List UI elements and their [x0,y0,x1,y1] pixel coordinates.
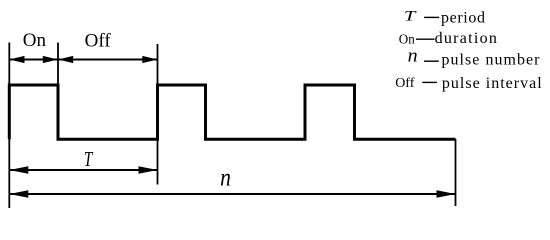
extension line right x=455.5 [455,139,457,206]
extension line x=157.5 [157,44,159,185]
legend line 2 dash [416,38,435,40]
svg-text:n: n [220,165,231,192]
dimension Off: right arrowhead [142,56,157,63]
svg-text:pulse interval: pulse interval [442,75,542,92]
extension line x=58 top [57,43,59,86]
dimension On: line [9,59,58,61]
dimension On: right arrowhead [43,56,58,63]
dimension n: right arrowhead [437,190,456,197]
legend line 4 dash [422,81,437,83]
svg-text:duration: duration [435,30,497,47]
dimension On: left arrowhead [9,56,24,63]
dimension n: line [9,193,455,195]
extension line left (x=9.3 top) [8,43,10,86]
legend line 3 dash [424,60,439,62]
dimension T: left arrowhead [9,166,28,173]
svg-text:On: On [23,30,47,51]
legend line 1 dash [424,16,439,18]
svg-text:T: T [84,147,94,171]
dimension Off: line [58,59,158,61]
dimension T: right arrowhead [139,166,158,173]
extension line left (x=9.3 bottom) [8,139,10,208]
dimension Off: left arrowhead [58,56,73,63]
svg-text:Off: Off [395,76,415,91]
svg-text:On: On [399,33,415,48]
svg-text:Off: Off [85,30,112,51]
wire: pulse waveform [9,85,455,139]
svg-text:pulse number: pulse number [442,52,541,69]
svg-text:period: period [441,9,485,26]
svg-text:n: n [408,47,418,67]
svg-text:T: T [404,9,418,25]
dimension n: left arrowhead [9,190,28,197]
dimension T: line [9,169,157,171]
